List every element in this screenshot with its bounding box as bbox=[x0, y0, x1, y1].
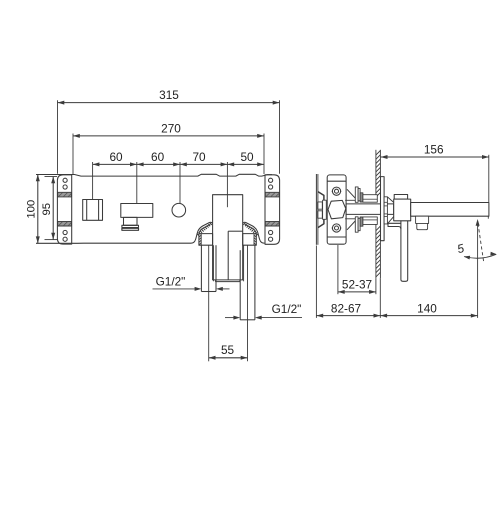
wall flange plate lower bbox=[355, 217, 358, 232]
spout body side view bbox=[411, 203, 489, 217]
lever handle arm bbox=[388, 223, 401, 229]
left inlet fitting collar bbox=[199, 234, 213, 246]
hex nut on valve body bbox=[328, 200, 346, 218]
lower hatched nut at wall bbox=[360, 217, 363, 226]
cartridge stub bbox=[124, 217, 138, 225]
right inlet fitting hatched dome bbox=[243, 222, 260, 240]
front view: mixer body top edge profile with extension to 100-dim bbox=[36, 174, 272, 176]
dimension 52-37 extension line right below wall bbox=[375, 278, 377, 294]
dimension 315 bbox=[58, 102, 280, 104]
dimension 100 vertical bbox=[37, 174, 39, 243]
clamp block upper bbox=[318, 202, 323, 209]
aerator under spout bbox=[416, 216, 429, 223]
spout assembly outer rectangle bbox=[213, 195, 243, 280]
dimension 315 extension lines bbox=[57, 100, 59, 174]
svg-text:50: 50 bbox=[240, 150, 254, 164]
right mounting bracket plate bbox=[265, 175, 280, 245]
svg-text:G1/2": G1/2" bbox=[272, 302, 302, 316]
front view: mixer body bottom edge with extension to 100-dim bbox=[36, 240, 195, 243]
right pipe centerline extension to 55-dim bbox=[247, 245, 249, 361]
svg-text:156: 156 bbox=[424, 143, 444, 157]
left bracket lower hatch band bbox=[58, 221, 72, 226]
left inlet pipe G1/2 thread bbox=[200, 245, 202, 291]
trim sleeve rings bbox=[384, 197, 387, 224]
dimension 82-67 extension line left bbox=[315, 246, 317, 318]
svg-text:60: 60 bbox=[109, 150, 123, 164]
right inlet fitting collar bbox=[243, 234, 257, 246]
left bracket screw hole top-1 bbox=[63, 178, 67, 182]
upper cone adapter bbox=[387, 197, 393, 203]
dimension 140 extension line right with up arrow at spout bbox=[477, 222, 479, 318]
svg-text:315: 315 bbox=[159, 88, 179, 102]
clamp plate bbox=[323, 200, 327, 219]
svg-text:82-67: 82-67 bbox=[331, 301, 361, 315]
right inlet pipe G1/2 thread bbox=[239, 250, 241, 320]
dimension 156 extension line right bbox=[488, 155, 490, 202]
left bracket screw hole top-2 bbox=[63, 185, 67, 189]
left pipe centerline extension to 55-dim bbox=[208, 245, 210, 361]
cartridge housing lid bbox=[394, 195, 407, 200]
dimension 82-67 bbox=[316, 315, 380, 317]
spout assembly inner vertical line bbox=[227, 231, 229, 280]
upper diagonal strut to wall flange bbox=[347, 189, 355, 198]
left bracket upper hatch band bbox=[58, 192, 72, 197]
right bracket screw hole top-1 bbox=[269, 178, 273, 182]
upper hatched nut at wall bbox=[360, 193, 363, 202]
left inlet fitting hatched dome bbox=[195, 222, 212, 240]
valve block component (square) in body bbox=[83, 200, 103, 221]
svg-text:55: 55 bbox=[221, 343, 235, 357]
dimension 140 bbox=[380, 315, 477, 317]
valve body bottom cap line bbox=[327, 236, 346, 238]
mounting strip upper bent tab bbox=[318, 192, 324, 201]
lower fixing screw bbox=[332, 224, 340, 232]
left bracket screw hole bottom-1 bbox=[63, 230, 67, 234]
svg-text:G1/2": G1/2" bbox=[156, 275, 186, 289]
dimension 60 second bbox=[137, 163, 180, 165]
dimension 270 extension lines bbox=[72, 134, 74, 175]
escutcheon plate on wall face bbox=[381, 177, 385, 241]
spout assembly pipe protruding below bbox=[216, 280, 240, 282]
dimension 52-37 bbox=[338, 291, 376, 293]
svg-text:52-37: 52-37 bbox=[342, 278, 372, 292]
valve body top cap line bbox=[327, 180, 346, 182]
lower diagonal strut to wall flange bbox=[347, 221, 355, 230]
spout assembly inner horizontal line bbox=[228, 230, 243, 232]
front view: body bottom edge segment right of spout fittings bbox=[260, 240, 265, 243]
lower supply pipe through wall bbox=[363, 217, 377, 225]
dimension 70 bbox=[180, 163, 227, 165]
clamp block lower bbox=[318, 211, 323, 218]
svg-text:100: 100 bbox=[26, 200, 38, 219]
svg-text:60: 60 bbox=[151, 150, 165, 164]
upper fixing screw bbox=[332, 187, 340, 195]
dimension 60 first bbox=[93, 163, 137, 165]
right bracket screw hole bottom-2 bbox=[269, 237, 273, 241]
lower cone adapter bbox=[387, 217, 393, 224]
swivel angle 5 deg tilted axis dashed line bbox=[478, 224, 484, 263]
dimension 50 bbox=[227, 163, 264, 165]
side view valve body bbox=[327, 175, 346, 244]
spout tip lip bbox=[487, 216, 489, 219]
dimension 52-37 extension line left bbox=[337, 245, 339, 294]
left mounting bracket plate bbox=[57, 175, 71, 244]
valve block inner left line bbox=[86, 200, 88, 221]
cartridge stub collar bbox=[122, 225, 139, 227]
dimension 82-67 extension line right / wall line extension bbox=[379, 278, 381, 318]
cartridge housing box bbox=[394, 199, 411, 221]
dimension 95 extension lines bbox=[45, 176, 58, 178]
svg-text:70: 70 bbox=[192, 150, 206, 164]
cartridge component rectangle in body bbox=[121, 204, 153, 218]
wall flange plate upper bbox=[355, 187, 358, 202]
central connection pipe through wall bbox=[346, 204, 394, 215]
dimension 270 bbox=[73, 135, 264, 137]
svg-text:270: 270 bbox=[161, 122, 181, 136]
right bracket screw hole bottom-1 bbox=[269, 230, 273, 234]
valve block inner right line bbox=[98, 200, 100, 221]
right bracket upper hatch band bbox=[265, 192, 279, 197]
mounting strip lower bent tab bbox=[318, 219, 324, 228]
svg-text:140: 140 bbox=[417, 301, 437, 315]
cartridge stub end band bbox=[122, 228, 139, 230]
left bracket screw hole bottom-2 bbox=[63, 237, 67, 241]
right bracket lower hatch band bbox=[265, 221, 279, 226]
wall section hatched band bbox=[375, 150, 377, 195]
dimension 95 vertical bbox=[52, 177, 54, 240]
svg-text:95: 95 bbox=[41, 203, 53, 216]
segment dimensions extension lines bbox=[92, 162, 94, 199]
upper supply pipe through wall bbox=[363, 195, 377, 203]
lever handle bar bbox=[401, 221, 408, 281]
concealed body mounting strip edge-on bbox=[315, 174, 317, 245]
dimension 156 bbox=[381, 156, 489, 158]
swivel angle arc with arrows bbox=[464, 254, 496, 258]
diverter circle in body bbox=[172, 203, 186, 217]
dimension 55 bbox=[209, 357, 248, 359]
right bracket screw hole top-2 bbox=[269, 185, 273, 189]
